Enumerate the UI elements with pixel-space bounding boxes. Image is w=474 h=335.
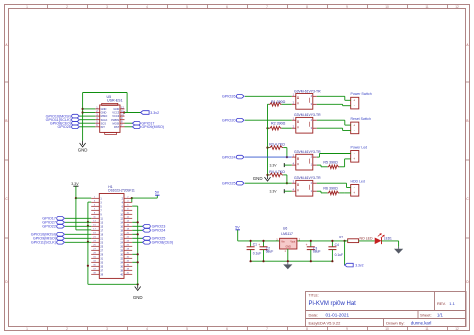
ports U5 left GPIO bbox=[46, 114, 80, 129]
wire U5 pin8 bbox=[125, 122, 133, 124]
label LED1 bbox=[384, 237, 392, 241]
label R3 4.7K bbox=[269, 143, 285, 147]
wire GPIO20 to U2 bbox=[245, 119, 292, 121]
svg-text:3: 3 bbox=[106, 327, 108, 331]
svg-text:01-01-2021: 01-01-2021 bbox=[326, 312, 350, 317]
svg-text:GPIO24: GPIO24 bbox=[152, 229, 166, 233]
title block frame bbox=[306, 292, 467, 327]
wire H1 left rail vertical bbox=[87, 202, 89, 284]
opto-isolator U2 G3VM-61VY3-TR bbox=[292, 117, 317, 134]
svg-text:5: 5 bbox=[186, 5, 188, 9]
svg-text:-: - bbox=[354, 129, 355, 133]
node R4 rail junction bbox=[266, 174, 268, 176]
svg-text:5: 5 bbox=[186, 327, 188, 331]
svg-text:10: 10 bbox=[385, 327, 389, 331]
power flag 3.3V at U3 bbox=[270, 163, 285, 167]
wire U1 pin3 to J1 bbox=[317, 104, 351, 105]
svg-text:R4 4.7KΩ: R4 4.7KΩ bbox=[269, 170, 285, 174]
wire regulator bottom rail bbox=[251, 260, 333, 262]
wire U5 top rail bbox=[83, 92, 128, 94]
svg-text:Reset Switch: Reset Switch bbox=[351, 117, 371, 121]
svg-text:SCLK: SCLK bbox=[101, 118, 108, 122]
connector J4 HDD Led bbox=[351, 179, 365, 196]
power flag 5V at H1 bbox=[155, 190, 160, 195]
wire U4 pin2 to J4 bbox=[317, 183, 351, 187]
svg-text:SCS: SCS bbox=[101, 121, 107, 125]
label R5 390 bbox=[323, 160, 338, 164]
svg-text:10: 10 bbox=[385, 5, 389, 9]
svg-text:9: 9 bbox=[346, 5, 348, 9]
svg-text:-: - bbox=[354, 186, 355, 190]
svg-text:TITLE:: TITLE: bbox=[309, 293, 319, 297]
resistor R6 390 bbox=[317, 191, 351, 195]
pin names U5 bbox=[101, 107, 120, 129]
net flag 3.3v2 at U5 bbox=[141, 111, 160, 115]
svg-text:GND: GND bbox=[286, 246, 292, 249]
pins U5 stubs bbox=[95, 109, 124, 127]
wire H1 right rail bbox=[132, 206, 138, 284]
wire regulator output rail bbox=[297, 240, 345, 242]
svg-text:9: 9 bbox=[346, 327, 348, 331]
opto-isolator U3 G3VM-61VY3-TR bbox=[292, 153, 317, 170]
power flag 3.3V at H1 bbox=[71, 182, 79, 186]
svg-text:6: 6 bbox=[226, 5, 228, 9]
capacitor C4 0.1uF bbox=[328, 240, 343, 263]
label U2 value bbox=[294, 113, 321, 117]
wire U5 to 3.3v2 flag bbox=[124, 112, 141, 114]
wire U1 pin4 to J1 bbox=[317, 96, 351, 100]
label H1 designator bbox=[108, 185, 112, 189]
wire U5 pin7 bbox=[125, 126, 133, 128]
node U5 GND junction 1 bbox=[82, 108, 84, 110]
connector J2 Reset Switch bbox=[351, 117, 371, 134]
svg-text:4: 4 bbox=[146, 5, 148, 9]
svg-text:C4: C4 bbox=[335, 243, 339, 247]
node H1 pin2 junction bbox=[131, 197, 133, 199]
svg-text:6: 6 bbox=[226, 327, 228, 331]
svg-text:2: 2 bbox=[66, 327, 68, 331]
svg-text:-: - bbox=[354, 104, 355, 108]
svg-text:GPIO26: GPIO26 bbox=[222, 95, 236, 99]
svg-text:+: + bbox=[353, 191, 355, 195]
svg-text:DS1023-2*20SF11: DS1023-2*20SF11 bbox=[108, 189, 135, 193]
node R3 rail junction bbox=[266, 147, 268, 149]
svg-text:U6: U6 bbox=[283, 226, 287, 230]
svg-text:11: 11 bbox=[425, 327, 429, 331]
svg-text:3.3v2: 3.3v2 bbox=[355, 264, 363, 268]
label NO LED bbox=[360, 236, 374, 240]
svg-text:GPIO25: GPIO25 bbox=[222, 182, 236, 186]
svg-text:Power Led: Power Led bbox=[351, 145, 368, 149]
power flag 3.3V at U4 bbox=[270, 189, 285, 194]
pin numbers H1 bbox=[93, 197, 130, 275]
label R1 390 bbox=[271, 100, 286, 104]
node R3 net junction bbox=[286, 156, 288, 158]
port GPIO25 opto bbox=[222, 181, 244, 185]
title block REV label bbox=[437, 301, 456, 306]
label R4 4.7K bbox=[269, 170, 285, 174]
port GPIO17 at U5 bbox=[132, 121, 154, 125]
svg-text:GND: GND bbox=[101, 107, 107, 111]
wire U5 VCC vertical bbox=[126, 93, 128, 113]
opto-isolator U1 G3VM-61VY3-TR bbox=[292, 93, 317, 110]
ground GND below H1 bbox=[133, 284, 143, 300]
svg-text:+: + bbox=[353, 157, 355, 161]
svg-text:12: 12 bbox=[455, 327, 459, 331]
svg-text:G3VM-61VY3-TR: G3VM-61VY3-TR bbox=[294, 150, 321, 154]
connector J3 Power Led bbox=[351, 145, 368, 162]
svg-text:Date:: Date: bbox=[309, 312, 319, 317]
svg-text:G3VM-61VY3-TR: G3VM-61VY3-TR bbox=[294, 89, 321, 93]
wire R7 to LED bbox=[359, 240, 375, 242]
title block date bbox=[309, 312, 350, 317]
node H1 left rail j3 bbox=[87, 241, 89, 243]
wire U3 pin2 to J3 bbox=[317, 154, 351, 158]
regulator U6 LM1117 bbox=[276, 226, 301, 252]
label U4 value bbox=[294, 176, 321, 180]
svg-text:3.3V: 3.3V bbox=[270, 164, 278, 168]
svg-text:2: 2 bbox=[66, 5, 68, 9]
svg-text:68uF: 68uF bbox=[313, 250, 321, 254]
wire 3.3V stub bbox=[75, 186, 77, 198]
wire gnd rail top bbox=[268, 103, 270, 105]
svg-text:1/1: 1/1 bbox=[437, 312, 443, 317]
svg-text:Power Switch: Power Switch bbox=[351, 92, 372, 96]
ground GND opto rail bbox=[253, 175, 271, 181]
svg-text:G3VM-61VY3-TR: G3VM-61VY3-TR bbox=[294, 113, 321, 117]
svg-text:0.1uF: 0.1uF bbox=[335, 253, 343, 257]
svg-text:GND: GND bbox=[133, 295, 143, 300]
wire U2 pin3 to J2 bbox=[317, 128, 351, 130]
svg-text:R6 390Ω: R6 390Ω bbox=[323, 186, 338, 190]
wire 3.3V to pin1 bbox=[76, 197, 91, 199]
svg-text:R3 4.7KΩ: R3 4.7KΩ bbox=[269, 143, 285, 147]
svg-text:R2 390Ω: R2 390Ω bbox=[271, 122, 286, 126]
pins H1 stubs bbox=[91, 198, 132, 274]
label U3 value bbox=[294, 150, 321, 154]
node R2 rail junction bbox=[266, 127, 268, 129]
svg-text:3.3v2: 3.3v2 bbox=[150, 111, 159, 115]
svg-text:Drawn By:: Drawn By: bbox=[386, 320, 404, 325]
capacitor C2 68uF bbox=[258, 240, 273, 263]
svg-text:R7: R7 bbox=[339, 235, 343, 239]
svg-text:12: 12 bbox=[455, 5, 459, 9]
title block sheet bbox=[420, 312, 443, 317]
resistor R7 box bbox=[339, 235, 358, 243]
ports H1 right group C bbox=[132, 225, 165, 233]
svg-text:GPIO22: GPIO22 bbox=[42, 225, 56, 229]
label U5 designator bbox=[107, 95, 112, 99]
node H1 left rail j2 bbox=[87, 225, 89, 227]
node H1 bottom junction bbox=[137, 283, 139, 285]
wire regulator input rail bbox=[238, 240, 280, 242]
title block drawn by bbox=[386, 320, 431, 325]
svg-text:Pi-KVM rpi0w Hat: Pi-KVM rpi0w Hat bbox=[309, 301, 357, 307]
port GPIO27 opto bbox=[222, 118, 244, 122]
LED D1 bbox=[375, 234, 385, 245]
net flag 3.3v2 output bbox=[345, 263, 364, 267]
wire GPIO26 to U1 bbox=[245, 95, 292, 97]
node U5 VCC junction bbox=[123, 111, 125, 113]
svg-text:1: 1 bbox=[26, 327, 28, 331]
svg-text:REV.: REV. bbox=[437, 301, 446, 306]
svg-text:GPIO25: GPIO25 bbox=[57, 125, 70, 129]
svg-text:B: B bbox=[5, 119, 7, 123]
wire H1 left rail top bbox=[88, 201, 91, 203]
ports H1 left group B bbox=[31, 233, 91, 245]
node output junction bbox=[344, 240, 346, 242]
svg-text:+: + bbox=[306, 243, 308, 247]
svg-text:EasyEDA V5.9.22: EasyEDA V5.9.22 bbox=[309, 320, 342, 325]
port GPIO26 bbox=[222, 95, 244, 99]
wire U6 gnd pin bbox=[287, 249, 289, 261]
ground GND below U6 bbox=[283, 262, 292, 269]
svg-text:3: 3 bbox=[106, 5, 108, 9]
resistor R4 4.7K bbox=[268, 173, 287, 183]
label U1 value bbox=[294, 89, 321, 93]
title block title text bbox=[309, 301, 357, 307]
label R6 390 bbox=[323, 186, 338, 190]
svg-text:5V: 5V bbox=[235, 226, 240, 230]
opto-isolator U4 G3VM-61VY3-TR bbox=[292, 180, 317, 197]
wire H1 5V bbox=[132, 195, 158, 198]
svg-text:1.1: 1.1 bbox=[449, 301, 455, 306]
svg-text:MISO: MISO bbox=[101, 114, 108, 118]
wire H1 pin2-pin4 tie bbox=[131, 198, 133, 202]
svg-text:4: 4 bbox=[146, 327, 148, 331]
resistor R5 390 bbox=[317, 159, 351, 169]
svg-text:GPIO24: GPIO24 bbox=[222, 156, 236, 160]
svg-text:3.3V: 3.3V bbox=[71, 182, 79, 186]
svg-text:GPIO8(CE0): GPIO8(CE0) bbox=[152, 241, 174, 245]
node 3.3V junction bbox=[75, 197, 77, 199]
svg-text:LED1: LED1 bbox=[384, 237, 392, 241]
svg-text:+: + bbox=[353, 123, 355, 127]
svg-text:5V: 5V bbox=[155, 190, 160, 194]
resistor R1 390 bbox=[269, 103, 292, 107]
wire to 3.3v2 flag bbox=[344, 241, 346, 265]
svg-text:GND: GND bbox=[253, 176, 263, 181]
label H1 value DS1023 bbox=[108, 189, 135, 193]
wire 3.3V to U3 pin4 bbox=[284, 164, 292, 166]
label U5 value USR-ES1 bbox=[107, 99, 123, 103]
svg-text:Sheet:: Sheet: bbox=[420, 312, 432, 317]
svg-text:+: + bbox=[353, 99, 355, 103]
pin names H1 bbox=[100, 197, 123, 276]
svg-text:VCC3: VCC3 bbox=[112, 111, 119, 115]
svg-text:GPIO20: GPIO20 bbox=[222, 119, 236, 123]
wire 3.3V to pin17 bbox=[76, 229, 91, 231]
connector J1 Power Switch bbox=[351, 92, 372, 109]
svg-text:INT: INT bbox=[101, 125, 106, 129]
wire 3.3V vertical bbox=[75, 198, 77, 230]
svg-text:8: 8 bbox=[306, 5, 308, 9]
svg-text:NO LED: NO LED bbox=[360, 236, 374, 240]
svg-text:3.3V: 3.3V bbox=[270, 190, 278, 194]
svg-text:1: 1 bbox=[26, 5, 28, 9]
resistor R3 4.7K bbox=[268, 146, 287, 157]
svg-text:7: 7 bbox=[266, 327, 268, 331]
node U5 GND junction 2 bbox=[82, 111, 84, 113]
power flag 5V regulator bbox=[235, 226, 240, 230]
resistor R2 390 bbox=[268, 126, 292, 130]
svg-text:R1 390Ω: R1 390Ω bbox=[271, 100, 286, 104]
svg-text:-: - bbox=[354, 152, 355, 156]
svg-text:B: B bbox=[466, 119, 468, 123]
port GPIO24 opto bbox=[222, 155, 244, 159]
port GPIO9(MISO) at U5 bbox=[132, 125, 164, 129]
svg-text:GND: GND bbox=[113, 107, 119, 111]
svg-text:VCC3: VCC3 bbox=[112, 114, 119, 118]
node R4 net junction bbox=[286, 182, 288, 184]
svg-text:HDD Led: HDD Led bbox=[351, 179, 365, 183]
title block TITLE label bbox=[309, 293, 319, 297]
title block version bbox=[309, 320, 342, 325]
svg-text:R5 390Ω: R5 390Ω bbox=[323, 160, 338, 164]
svg-text:GND: GND bbox=[78, 147, 88, 152]
capacitor C1 0.1uF bbox=[247, 240, 262, 263]
svg-text:PWDN: PWDN bbox=[111, 118, 119, 122]
wire 3.3V to U4 pin4 bbox=[284, 190, 292, 192]
svg-text:8: 8 bbox=[306, 327, 308, 331]
svg-text:GPIO9(MISO): GPIO9(MISO) bbox=[141, 125, 164, 129]
wires U5 left pins bbox=[80, 109, 96, 127]
svg-text:7: 7 bbox=[266, 5, 268, 9]
wire GPIO25 to U4 bbox=[245, 182, 292, 184]
svg-text:GND: GND bbox=[101, 111, 107, 115]
label R2 390 bbox=[271, 122, 286, 126]
capacitor C3 68uF bbox=[306, 240, 321, 263]
component U5 body bbox=[100, 103, 120, 134]
ports H1 right group D bbox=[132, 237, 174, 245]
wire opto gnd rail bbox=[267, 104, 269, 176]
ground GND right of LED bbox=[394, 247, 403, 254]
svg-text:RST: RST bbox=[114, 125, 120, 129]
svg-text:GPIO11(SCLK): GPIO11(SCLK) bbox=[31, 241, 56, 245]
node H1 left rail j1 bbox=[87, 221, 89, 223]
wire LED to gnd bbox=[382, 241, 399, 247]
wire 5V stub regulator bbox=[237, 230, 239, 241]
pin numbers U5 bbox=[96, 105, 124, 127]
svg-text:G3VM-61VY3-TR: G3VM-61VY3-TR bbox=[294, 176, 321, 180]
component H1 body bbox=[99, 194, 124, 279]
wire GPIO24 to U3 blue bbox=[245, 156, 292, 158]
svg-text:+: + bbox=[258, 243, 260, 247]
node U6 gnd junction bbox=[287, 260, 289, 262]
wire H1 bottom rail bbox=[88, 283, 138, 285]
node H1 left rail j4 bbox=[87, 265, 89, 267]
wire U5 left GND rail bbox=[82, 93, 84, 141]
wire U2 pin4 to J2 bbox=[317, 120, 351, 125]
wires H1 right gnd pins bbox=[132, 221, 139, 263]
svg-text:Vout: Vout bbox=[290, 241, 295, 244]
svg-text:dunne.karl: dunne.karl bbox=[411, 320, 432, 325]
ground GND below U5 bbox=[78, 141, 88, 153]
svg-text:C1: C1 bbox=[253, 242, 257, 246]
svg-text:LM1117: LM1117 bbox=[281, 232, 293, 236]
svg-text:MOSI: MOSI bbox=[113, 121, 120, 125]
ports H1 left group A bbox=[42, 217, 91, 229]
svg-text:11: 11 bbox=[425, 5, 429, 9]
svg-text:USR-ES1: USR-ES1 bbox=[107, 99, 123, 103]
svg-text:68uF: 68uF bbox=[266, 250, 274, 254]
svg-text:0.1uF: 0.1uF bbox=[253, 252, 261, 256]
